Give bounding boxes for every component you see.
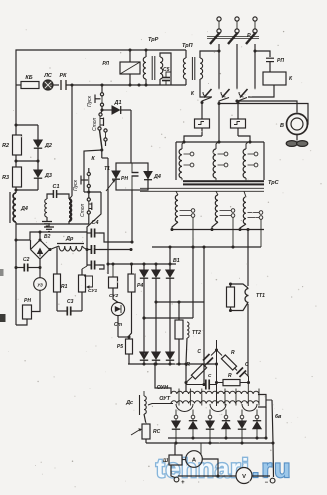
svg-text:Д3: Д3 bbox=[44, 173, 52, 179]
svg-text:ТТ1: ТТ1 bbox=[256, 293, 265, 299]
svg-text:РП: РП bbox=[277, 58, 284, 64]
svg-text:Т1: Т1 bbox=[104, 166, 110, 172]
svg-text:Др: Др bbox=[65, 236, 74, 242]
svg-text:Пуск: Пуск bbox=[73, 179, 79, 191]
svg-text:R: R bbox=[228, 373, 232, 379]
svg-text:Р5: Р5 bbox=[117, 344, 123, 350]
svg-text:−: − bbox=[264, 480, 268, 486]
svg-text:В: В bbox=[280, 123, 284, 129]
svg-text:Д1: Д1 bbox=[114, 100, 122, 106]
svg-text:ТрП: ТрП bbox=[182, 43, 194, 49]
svg-text:К: К bbox=[289, 76, 293, 82]
svg-text:tehnari: tehnari bbox=[156, 453, 250, 483]
svg-text:Ш: Ш bbox=[163, 458, 168, 464]
svg-text:+: + bbox=[181, 480, 185, 486]
svg-text:ТТ2: ТТ2 bbox=[192, 330, 201, 336]
svg-text:R: R bbox=[231, 350, 235, 356]
svg-text:С3: С3 bbox=[67, 299, 74, 305]
svg-text:УЗ: УЗ bbox=[37, 282, 43, 287]
svg-text:ТрР: ТрР bbox=[148, 37, 159, 43]
svg-text:К: К bbox=[191, 91, 195, 97]
svg-text:RС: RС bbox=[153, 429, 161, 435]
svg-text:РК: РК bbox=[60, 73, 68, 79]
svg-text:R3: R3 bbox=[2, 175, 9, 181]
svg-text:С: С bbox=[208, 373, 212, 378]
svg-text:ОУТ: ОУТ bbox=[159, 396, 171, 402]
svg-text:ЛС: ЛС bbox=[43, 73, 52, 79]
svg-text:С1: С1 bbox=[53, 184, 60, 190]
svg-text:С: С bbox=[197, 349, 201, 355]
svg-text:СУ2: СУ2 bbox=[109, 293, 119, 299]
svg-text:R: R bbox=[186, 362, 190, 368]
svg-text:К: К bbox=[91, 156, 95, 162]
svg-text:Д2: Д2 bbox=[44, 143, 52, 149]
svg-text:Д4: Д4 bbox=[20, 206, 28, 212]
svg-text:ТрС: ТрС bbox=[268, 180, 280, 186]
svg-text:С4: С4 bbox=[92, 220, 99, 226]
svg-text:Р4: Р4 bbox=[137, 283, 143, 289]
svg-text:РЛ: РЛ bbox=[102, 61, 109, 67]
svg-text:С: С bbox=[245, 362, 249, 368]
svg-text:Р: Р bbox=[247, 33, 251, 39]
svg-text:КБ: КБ bbox=[25, 75, 32, 81]
svg-text:В1: В1 bbox=[173, 258, 180, 264]
svg-text:Стоп: Стоп bbox=[92, 117, 98, 131]
svg-text:Пуск: Пуск bbox=[87, 95, 93, 107]
svg-text:Д4: Д4 bbox=[153, 174, 161, 180]
svg-text:Дс: Дс bbox=[125, 400, 133, 406]
svg-text:V: V bbox=[242, 474, 246, 480]
svg-text:Стоп: Стоп bbox=[80, 203, 86, 217]
svg-text:R2: R2 bbox=[2, 143, 9, 149]
svg-text:РН: РН bbox=[24, 298, 31, 304]
svg-text:СУ1: СУ1 bbox=[88, 288, 98, 294]
svg-text:R1: R1 bbox=[61, 284, 68, 290]
svg-text:6в: 6в bbox=[275, 414, 282, 420]
svg-text:РН: РН bbox=[121, 176, 128, 182]
svg-text:В2: В2 bbox=[44, 234, 51, 240]
